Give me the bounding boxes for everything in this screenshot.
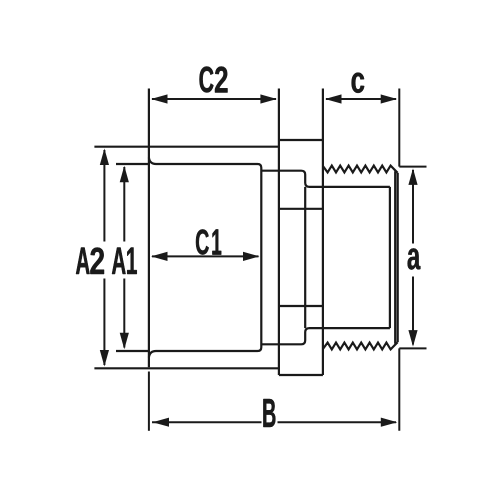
a bottom arrowhead [408,330,417,347]
socket left face edge + C2 left extension [148,89,150,368]
B right extension line [398,348,400,430]
a top arrowhead [408,168,417,185]
C1 dimension line [152,255,259,257]
socket bore inner surface outline [149,158,261,358]
label C1 [196,229,221,254]
male thread bottom zigzag [323,342,398,349]
C1 right arrowhead [243,252,260,261]
socket body outer top edge + A2 top extension [94,146,279,148]
lower shoulder step from socket wall to thread root [261,328,390,344]
c dimension line [326,98,396,100]
hex lower face line [279,305,323,307]
a bottom extension line [399,347,426,349]
socket body outer bottom edge + A2 bottom extension [94,367,279,369]
pipe end face outer edge [397,173,399,342]
B right arrowhead [381,418,398,427]
shoulder step vertical [304,187,306,328]
A1 dimension line with text gap [123,167,125,348]
label B [263,399,275,427]
pipe end face chamfer edge [394,171,396,344]
thread-end chamfer vertical [389,187,391,328]
c right extension line [398,89,400,167]
A1 bottom extension stub [116,350,148,352]
hex flange bottom edge [279,374,323,376]
A1 top arrowhead [120,166,129,183]
A1 bottom arrowhead [120,333,129,350]
a dimension line with text gap [412,170,414,345]
C1 left arrowhead [151,252,168,261]
A1 top extension stub [116,163,148,165]
label c [352,73,365,93]
C2 right arrowhead [260,94,277,103]
label a [408,248,421,269]
c right arrowhead [381,94,398,103]
B left extension line [148,372,150,431]
A2 dimension line with text gap [103,150,105,365]
label A2 [76,248,104,275]
C2 left arrowhead [151,94,168,103]
hex flange right edge + c left extension [322,89,324,376]
A2 top arrowhead [100,149,109,166]
B dimension line with text gap [152,421,396,423]
hex upper face line [279,208,323,210]
male thread top zigzag [323,166,398,173]
upper shoulder step from socket wall to thread root [261,171,390,187]
c left arrowhead [325,94,342,103]
hex flange left edge + C2 right extension [278,89,280,376]
label C2 [200,67,228,93]
B left arrowhead [153,418,170,427]
a top extension line [399,166,426,168]
C2 dimension line [152,98,276,100]
label A1 [112,248,137,275]
hex flange top edge [279,139,323,141]
A2 bottom arrowhead [100,350,109,367]
